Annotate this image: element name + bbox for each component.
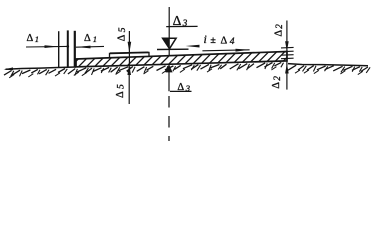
svg-text:Δ: Δ	[27, 33, 34, 44]
svg-text:4: 4	[230, 37, 235, 47]
dashed centre line below	[168, 96, 170, 141]
label Delta2 (above, rotated)	[274, 24, 285, 37]
dimension line Delta1 right with left-pointing arrowhead	[76, 46, 104, 49]
dimension line Delta2 (vertical at beam end)	[285, 21, 289, 90]
arrowhead at left end of ground line	[4, 67, 14, 70]
centre line above benchmark	[168, 7, 170, 39]
svg-text:1: 1	[93, 34, 97, 44]
svg-text:i: i	[204, 32, 207, 46]
svg-text:Δ: Δ	[221, 36, 228, 47]
svg-text:Δ: Δ	[274, 30, 285, 37]
ground surface line (right segment)	[288, 64, 368, 66]
extension line b (x=67.3)	[67, 30, 69, 67]
label Delta3 (bottom)	[177, 82, 190, 93]
svg-text:Δ: Δ	[84, 33, 91, 44]
benchmark base line	[157, 48, 189, 50]
extension line c / beam left edge (x=75.8)	[74, 31, 76, 67]
underline of Delta3 (bottom)	[170, 90, 192, 92]
label Delta2 (below, rotated)	[271, 76, 282, 89]
tick marks at beam end	[281, 47, 294, 58]
svg-text:Δ: Δ	[116, 34, 127, 41]
svg-text:2: 2	[274, 24, 284, 29]
upward arrowhead below beam (centre)	[166, 64, 173, 91]
beam (levelling slab) outline	[76, 52, 287, 67]
svg-text:Δ: Δ	[271, 82, 282, 89]
label Delta5 (below, rotated)	[115, 84, 127, 98]
label Delta5 (above, rotated)	[116, 27, 128, 41]
label i plus-minus Delta4	[204, 32, 235, 47]
label Delta1 (left)	[27, 33, 40, 44]
dimension line Delta1 left with right-pointing arrowhead	[26, 45, 69, 48]
45-degree hatching inside beam	[76, 52, 287, 67]
extension line a (x=58.7)	[58, 31, 60, 67]
svg-text:2: 2	[272, 76, 282, 81]
dimension line Delta5 (below, arrow up to ground)	[127, 65, 131, 104]
label Delta3 (top)	[173, 13, 188, 28]
svg-text:5: 5	[116, 84, 126, 89]
arrowhead pointing left (slope direction)	[186, 45, 200, 48]
svg-text:5: 5	[118, 27, 128, 32]
svg-text:±: ±	[211, 35, 216, 46]
svg-text:Δ: Δ	[115, 91, 126, 98]
dimension line Delta5 (above, arrow down to plate)	[128, 31, 132, 66]
label Delta1 (right)	[84, 33, 97, 44]
svg-text:1: 1	[35, 34, 39, 44]
underline of Delta3 (top)	[166, 25, 197, 27]
underline with right-pointing arrowhead	[202, 49, 249, 52]
soil hatching below ground	[4, 62, 370, 77]
benchmark triangle symbol	[163, 38, 177, 55]
ground surface line (left segment)	[6, 67, 77, 69]
thin levelling plate on beam top	[110, 52, 150, 57]
